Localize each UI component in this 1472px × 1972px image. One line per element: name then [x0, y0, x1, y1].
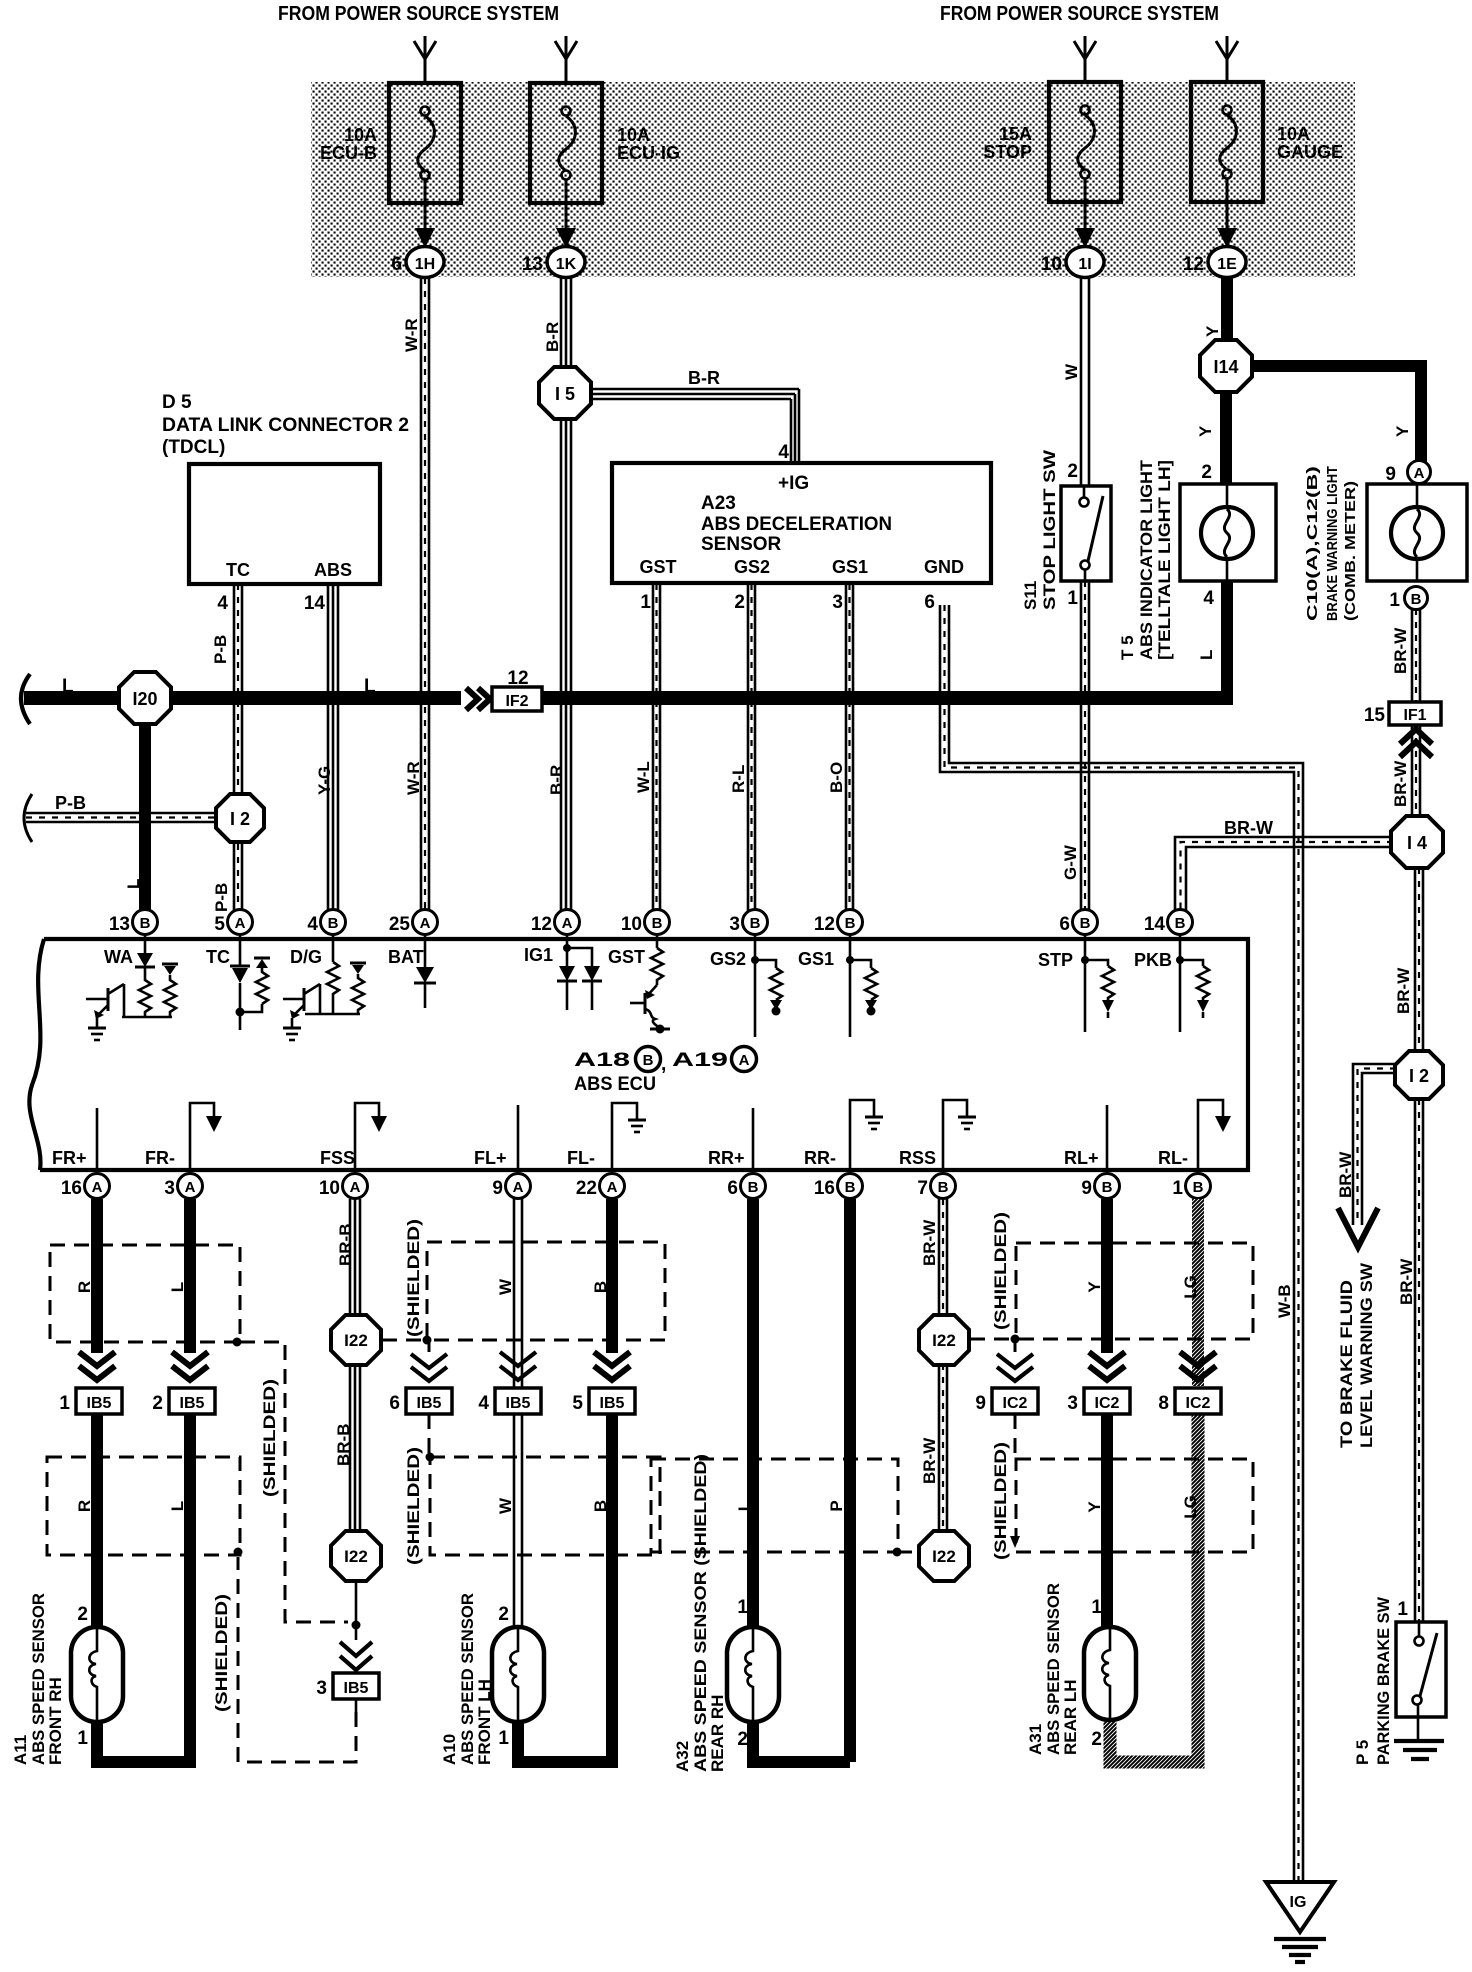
svg-text:I 2: I 2 — [1409, 1066, 1429, 1086]
svg-text:1: 1 — [737, 1597, 748, 1618]
wire Y thick I14 to brake warning light 9A — [1250, 366, 1421, 462]
svg-text:(COMB. METER): (COMB. METER) — [1342, 481, 1359, 621]
svg-text:1I: 1I — [1078, 256, 1091, 273]
ECU internal FR+ lead — [96, 1108, 99, 1170]
svg-text:STOP LIGHT SW: STOP LIGHT SW — [1040, 449, 1059, 610]
svg-text:RSS: RSS — [899, 1148, 936, 1168]
wire FL- B — [606, 1199, 618, 1353]
ECU top pin 3 B — [729, 910, 767, 936]
svg-text:GST: GST — [608, 947, 645, 967]
svg-text:9: 9 — [1385, 464, 1396, 485]
svg-text:A32: A32 — [673, 1741, 692, 1772]
junction I4 — [1391, 816, 1443, 868]
svg-text:6: 6 — [389, 1393, 400, 1414]
connector 1 IB5 — [59, 1388, 122, 1414]
stop light switch S11 — [1061, 486, 1111, 581]
svg-text:FR-: FR- — [145, 1148, 175, 1168]
ECU internal IG1 diodes — [557, 935, 602, 1010]
svg-text:B: B — [652, 915, 663, 932]
parking brake switch P5 — [1396, 1622, 1446, 1717]
P-B break mark left — [24, 794, 32, 842]
connector IF1 pin 15 — [1364, 702, 1441, 726]
svg-text:RR+: RR+ — [708, 1148, 745, 1168]
wire P-B from DLC TC through I2 to ECU pin 5A — [234, 584, 242, 912]
svg-text:B: B — [591, 1281, 610, 1293]
wire RR+ L to sensor A32 — [747, 1199, 759, 1630]
feed arrow to fuse ECU-IG — [555, 36, 577, 84]
shield drain to 3 IB5 — [340, 1580, 372, 1712]
connector 2 IB5 — [152, 1388, 215, 1414]
svg-text:10A: 10A — [344, 125, 377, 145]
svg-text:REAR LH: REAR LH — [1061, 1679, 1080, 1755]
ECU top pin 12 B — [814, 910, 863, 936]
junction I14 — [1200, 340, 1252, 392]
ECU bottom pin 22 A — [576, 1174, 625, 1200]
svg-text:1: 1 — [498, 1728, 509, 1749]
arrow into 3 IC2 — [1089, 1352, 1125, 1380]
svg-text:STP: STP — [1038, 950, 1073, 970]
svg-text:C10(A),C12(B): C10(A),C12(B) — [1304, 466, 1321, 621]
junction I5 — [539, 367, 591, 419]
svg-text:4: 4 — [1203, 588, 1214, 609]
svg-text:6: 6 — [391, 254, 402, 275]
svg-text:4: 4 — [217, 593, 228, 614]
main bus wire L right segment to telltale wire — [543, 691, 1233, 705]
svg-text:B-R: B-R — [547, 765, 566, 795]
svg-text:GST: GST — [639, 557, 676, 577]
svg-text:Y: Y — [1393, 425, 1412, 437]
svg-text:4: 4 — [478, 1393, 489, 1414]
svg-text:IF2: IF2 — [505, 693, 528, 710]
svg-text:PARKING BRAKE SW: PARKING BRAKE SW — [1374, 1596, 1393, 1765]
svg-text:IF1: IF1 — [1403, 707, 1426, 724]
junction I20 on bus — [119, 672, 171, 724]
connector 3 IC2 — [1067, 1388, 1130, 1414]
dotted power band — [311, 82, 1355, 277]
svg-text:12: 12 — [814, 914, 835, 935]
svg-text:IB5: IB5 — [87, 1395, 112, 1412]
ECU internal PKB load — [1176, 935, 1209, 1032]
svg-text:(SHIELDED): (SHIELDED) — [212, 1594, 231, 1712]
feed arrow to fuse STOP — [1074, 36, 1096, 84]
ABS deceleration sensor A23 box — [612, 463, 991, 583]
arrow into 9 IC2 shield — [997, 1354, 1033, 1381]
svg-text:REAR RH: REAR RH — [708, 1695, 727, 1772]
svg-text:A: A — [92, 1179, 103, 1196]
svg-text:BRAKE WARNING LIGHT: BRAKE WARNING LIGHT — [1324, 466, 1341, 621]
ECU internal RR+ lead — [752, 1108, 755, 1170]
svg-text:PKB: PKB — [1134, 950, 1172, 970]
feed arrow to fuse ECU-B — [414, 36, 436, 84]
ECU top pin 4 B — [307, 910, 345, 936]
ECU internal FL+ lead — [517, 1105, 520, 1170]
svg-text:5: 5 — [214, 914, 225, 935]
svg-text:W-R: W-R — [402, 318, 421, 352]
svg-text:2: 2 — [1201, 462, 1212, 483]
svg-text:[TELLTALE LIGHT LH]: [TELLTALE LIGHT LH] — [1155, 460, 1174, 660]
svg-text:BR-W: BR-W — [1224, 818, 1273, 838]
svg-text:A: A — [420, 915, 431, 932]
svg-text:(SHIELDED): (SHIELDED) — [404, 1447, 423, 1565]
svg-text:1K: 1K — [556, 256, 577, 273]
ECU internal GS1 load — [846, 935, 877, 1037]
svg-text:BR-W: BR-W — [1397, 1258, 1416, 1305]
fuse 10A ECU-B — [389, 83, 461, 228]
svg-text:Y: Y — [1085, 1501, 1104, 1513]
ground IG — [1266, 1882, 1334, 1962]
svg-text:BR-W: BR-W — [1336, 1151, 1355, 1198]
svg-text:T 5: T 5 — [1118, 635, 1137, 660]
svg-text:13: 13 — [109, 914, 130, 935]
svg-text:22: 22 — [576, 1178, 597, 1199]
fuse 10A ECU-IG — [530, 83, 602, 228]
ECU bottom pin 3 A — [164, 1174, 202, 1200]
svg-text:I14: I14 — [1213, 357, 1238, 377]
wire RL+ Y to sensor A31 — [1101, 1199, 1113, 1353]
ECU internal FSS hook arrow — [355, 1103, 387, 1170]
svg-text:1: 1 — [77, 1728, 88, 1749]
svg-text:1: 1 — [59, 1393, 70, 1414]
svg-text:4: 4 — [307, 914, 318, 935]
svg-text:Y: Y — [1085, 1281, 1104, 1293]
svg-text:P 5: P 5 — [1353, 1740, 1372, 1765]
wire W-R from 1H to ECU pin 25A — [421, 278, 429, 912]
svg-text:(TDCL): (TDCL) — [162, 437, 225, 458]
shield dashed box RR — [651, 1459, 898, 1552]
svg-text:3: 3 — [316, 1678, 327, 1699]
pin 9 circle A of brake warning light — [1408, 461, 1431, 484]
svg-text:BR-B: BR-B — [334, 1424, 353, 1467]
arrow into 2 IB5 — [172, 1352, 208, 1380]
ECU top pin 5 A — [214, 910, 252, 936]
svg-text:14: 14 — [304, 593, 326, 614]
svg-text:6: 6 — [924, 592, 935, 613]
ECU bottom pin 10 A — [319, 1174, 368, 1200]
svg-text:IG: IG — [1290, 1894, 1307, 1911]
svg-text:7: 7 — [917, 1178, 928, 1199]
shield drain FL group — [382, 1336, 435, 1462]
wire BR-W I2 down to parking brake switch — [1415, 1099, 1423, 1622]
svg-text:(SHIELDED): (SHIELDED) — [404, 1219, 423, 1337]
svg-text:1: 1 — [640, 592, 651, 613]
svg-text:BR-W: BR-W — [920, 1219, 939, 1266]
connector oval 1H pin 6 — [391, 247, 444, 278]
svg-text:W-B: W-B — [1275, 1284, 1294, 1318]
wire P-B horizontal to I2 — [26, 813, 218, 822]
svg-text:10A: 10A — [1277, 124, 1310, 144]
svg-text:2: 2 — [1067, 461, 1078, 482]
ECU bottom pin 7 B — [917, 1174, 955, 1200]
svg-text:TC: TC — [206, 947, 230, 967]
svg-text:B: B — [1080, 915, 1091, 932]
svg-text:B: B — [845, 915, 856, 932]
wire branch to brake fluid level warning switch arrow — [1338, 1064, 1396, 1247]
svg-text:L: L — [124, 879, 143, 889]
svg-text:,: , — [661, 1054, 666, 1075]
svg-text:R: R — [75, 1500, 94, 1512]
wire BR-W IF1 to I4 with up arrows — [1400, 725, 1432, 818]
svg-text:GS1: GS1 — [832, 557, 868, 577]
svg-text:W: W — [496, 1497, 515, 1514]
svg-text:IB5: IB5 — [180, 1395, 205, 1412]
svg-text:ABS DECELERATION: ABS DECELERATION — [701, 514, 892, 535]
DLC2 connector D5 box — [189, 464, 380, 584]
svg-text:IC2: IC2 — [1003, 1395, 1028, 1412]
svg-text:B: B — [748, 1179, 759, 1196]
svg-text:13: 13 — [522, 254, 543, 275]
ECU bottom pin 6 B — [727, 1174, 765, 1200]
svg-text:IC2: IC2 — [1186, 1395, 1211, 1412]
ECU internal RSS hook ground — [943, 1100, 976, 1170]
svg-text:D/G: D/G — [290, 947, 322, 967]
svg-text:B: B — [328, 915, 339, 932]
svg-text:2: 2 — [77, 1604, 88, 1625]
svg-text:B: B — [1102, 1179, 1113, 1196]
svg-text:B: B — [140, 915, 151, 932]
svg-text:DATA LINK CONNECTOR 2: DATA LINK CONNECTOR 2 — [162, 415, 409, 436]
junction I22 rear upper — [919, 1315, 969, 1365]
wire BR-B between I22 octagons — [350, 1364, 360, 1532]
svg-text:IB5: IB5 — [506, 1395, 531, 1412]
wire W-L from A23 GST to ECU pin 10B — [653, 584, 660, 912]
wire BR-W I4 down to I2 — [1415, 868, 1423, 1051]
svg-text:B: B — [1411, 591, 1422, 608]
svg-text:GS2: GS2 — [734, 557, 770, 577]
svg-text:2: 2 — [1091, 1729, 1102, 1750]
shield dashed box FL lower — [430, 1457, 660, 1555]
svg-text:4: 4 — [778, 442, 789, 463]
svg-text:FSS: FSS — [320, 1148, 355, 1168]
svg-text:6: 6 — [727, 1178, 738, 1199]
ECU top pin 25 A — [389, 910, 438, 936]
shield dashed box RL upper — [1016, 1243, 1253, 1339]
ECU bottom pin 16 A — [61, 1174, 110, 1200]
wire FL+ W to sensor A10 — [514, 1199, 522, 1630]
ECU internal BAT diode — [414, 935, 436, 1008]
svg-text:9: 9 — [492, 1178, 503, 1199]
fuse 15A STOP — [1049, 82, 1121, 228]
wire RL- LG hatched — [1110, 1199, 1198, 1762]
svg-text:IC2: IC2 — [1095, 1395, 1120, 1412]
circled B of A18 — [636, 1047, 661, 1072]
svg-text:LG: LG — [1181, 1495, 1200, 1519]
svg-text:SENSOR: SENSOR — [701, 534, 782, 555]
svg-text:B: B — [1193, 1179, 1204, 1196]
feed arrow to fuse GAUGE — [1216, 36, 1238, 84]
wire B-O from A23 GS1 to ECU pin 12B — [846, 584, 853, 912]
ECU internal FL- hook ground — [612, 1103, 646, 1170]
svg-text:GS2: GS2 — [710, 949, 746, 969]
ECU top pin 6 B — [1059, 910, 1097, 936]
svg-text:3: 3 — [164, 1178, 175, 1199]
svg-text:3: 3 — [832, 592, 843, 613]
svg-text:12: 12 — [507, 668, 528, 689]
svg-text:2: 2 — [734, 592, 745, 613]
ECU internal GS2 load — [751, 935, 782, 1037]
svg-text:RR-: RR- — [804, 1148, 836, 1168]
svg-text:14: 14 — [1144, 914, 1166, 935]
svg-text:I22: I22 — [344, 1547, 368, 1566]
arrow into 4 IB5 — [500, 1352, 536, 1380]
svg-text:BR-B: BR-B — [336, 1224, 355, 1267]
svg-text:R-L: R-L — [729, 765, 748, 793]
ECU bottom pin 9 B — [1081, 1174, 1119, 1200]
svg-text:9: 9 — [975, 1393, 986, 1414]
wire L thick from I20 to ECU pin 13B — [139, 723, 151, 912]
svg-text:3: 3 — [1067, 1393, 1078, 1414]
ECU internal WA circuit — [86, 935, 178, 1040]
svg-text:GAUGE: GAUGE — [1277, 142, 1343, 162]
svg-text:L: L — [62, 676, 74, 697]
connector 6 IB5 — [389, 1388, 452, 1414]
wire Y thick I14 down to telltale light pin 2 — [1220, 388, 1232, 485]
svg-text:P-B: P-B — [212, 883, 231, 912]
svg-text:WA: WA — [104, 947, 133, 967]
ECU top pin 14 B — [1144, 910, 1193, 936]
speed sensor A31 rear LH — [1084, 1627, 1136, 1720]
ECU top pin 13 B — [109, 910, 158, 936]
svg-text:R: R — [75, 1281, 94, 1293]
junction I22 front lower — [331, 1531, 381, 1581]
svg-text:I22: I22 — [932, 1547, 956, 1566]
svg-text:P-B: P-B — [55, 793, 86, 813]
svg-text:1: 1 — [1091, 1597, 1102, 1618]
svg-text:TC: TC — [226, 560, 250, 580]
svg-text:LEVEL WARNING SW: LEVEL WARNING SW — [1357, 1262, 1376, 1448]
svg-text:RL-: RL- — [1158, 1148, 1188, 1168]
wire FR+ R to sensor A11 — [91, 1199, 103, 1353]
shield dashed box RL lower — [1016, 1459, 1253, 1552]
svg-text:IB5: IB5 — [600, 1395, 625, 1412]
svg-text:I22: I22 — [344, 1331, 368, 1350]
svg-text:GS1: GS1 — [798, 949, 834, 969]
svg-text:P: P — [827, 1500, 846, 1511]
svg-text:Y-G: Y-G — [315, 766, 334, 795]
svg-text:FROM POWER SOURCE SYSTEM: FROM POWER SOURCE SYSTEM — [278, 3, 559, 25]
svg-text:IB5: IB5 — [344, 1680, 369, 1697]
ECU bottom pin 1 B — [1172, 1174, 1210, 1200]
svg-text:12: 12 — [1183, 254, 1204, 275]
svg-text:1E: 1E — [1217, 256, 1237, 273]
wire B-R from I5 to A23 +IG pin 4 — [590, 389, 799, 462]
connector 3 IB5 — [316, 1673, 379, 1699]
svg-text:TO BRAKE FLUID: TO BRAKE FLUID — [1337, 1280, 1356, 1448]
svg-text:I 2: I 2 — [230, 809, 250, 829]
wire BR-W brake warning to IF1 — [1412, 609, 1420, 703]
shield drain RL group — [970, 1335, 1020, 1549]
svg-text:W: W — [496, 1278, 515, 1295]
svg-text:B-O: B-O — [827, 762, 846, 793]
ECU internal D/G circuit — [283, 935, 366, 1040]
svg-text:FROM POWER SOURCE SYSTEM: FROM POWER SOURCE SYSTEM — [940, 3, 1219, 25]
wire W-B from A23 GND to IG ground — [940, 605, 1303, 1884]
svg-text:A: A — [1414, 465, 1425, 482]
ECU internal RL+ lead — [1106, 1105, 1109, 1170]
ABS ECU box — [29, 939, 1248, 1170]
wire Y thick from 1E to I14 — [1221, 278, 1233, 345]
arrow into 1 IB5 — [79, 1352, 115, 1380]
svg-text:10: 10 — [621, 914, 642, 935]
svg-text:GND: GND — [924, 557, 964, 577]
svg-text:FRONT LH: FRONT LH — [475, 1679, 494, 1765]
svg-text:2: 2 — [152, 1393, 163, 1414]
svg-text:L: L — [364, 676, 376, 697]
connector 9 IC2 — [975, 1388, 1038, 1414]
svg-text:Y: Y — [1196, 425, 1215, 437]
svg-text:W: W — [1062, 363, 1081, 380]
arrowhead into connector 1H — [415, 228, 435, 248]
wire B-R from 1K through I5 to ECU pin 12A — [561, 278, 571, 912]
svg-text:W-R: W-R — [404, 761, 423, 795]
connector 4 IB5 — [478, 1388, 541, 1414]
svg-text:IB5: IB5 — [417, 1395, 442, 1412]
wire R-L from A23 GS2 to ECU pin 3B — [748, 584, 755, 912]
svg-text:B: B — [845, 1179, 856, 1196]
svg-text:16: 16 — [61, 1178, 82, 1199]
svg-text:RL+: RL+ — [1064, 1148, 1099, 1168]
telltale lamp T5 ABS indicator light — [1180, 484, 1276, 581]
svg-text:B: B — [591, 1500, 610, 1512]
svg-text:B: B — [643, 1052, 654, 1069]
fuse 10A GAUGE — [1191, 82, 1263, 228]
svg-text:A: A — [350, 1179, 361, 1196]
svg-text:BR-W: BR-W — [1391, 760, 1410, 807]
svg-text:ABS: ABS — [314, 560, 352, 580]
svg-text:L: L — [1197, 650, 1216, 660]
svg-text:A: A — [235, 915, 246, 932]
arrow into 5 IB5 — [594, 1352, 630, 1380]
connector 8 IC2 — [1158, 1388, 1221, 1414]
svg-text:25: 25 — [389, 914, 411, 935]
svg-text:IG1: IG1 — [524, 945, 553, 965]
svg-text:8: 8 — [1158, 1393, 1169, 1414]
wire Y-G from DLC ABS to ECU pin 4B — [328, 584, 338, 912]
ECU internal RL- hook arrow — [1198, 1100, 1231, 1170]
pin 1 circle B of brake warning light — [1389, 587, 1427, 612]
junction I2 right — [1395, 1051, 1443, 1099]
svg-text:5: 5 — [572, 1393, 583, 1414]
circled A of A19 — [732, 1047, 757, 1072]
arrowhead into connector 1I — [1075, 228, 1095, 248]
shield drain RR to I22 — [893, 1548, 921, 1557]
svg-text:Y: Y — [1203, 325, 1222, 337]
svg-text:FR+: FR+ — [52, 1148, 87, 1168]
svg-text:15: 15 — [1364, 705, 1386, 726]
svg-text:A23: A23 — [701, 493, 736, 514]
bus break mark left — [21, 674, 30, 724]
svg-text:FRONT RH: FRONT RH — [46, 1677, 65, 1765]
svg-text:A31: A31 — [1026, 1724, 1045, 1755]
svg-text:1: 1 — [1067, 588, 1078, 609]
svg-text:BAT: BAT — [388, 947, 424, 967]
svg-text:A18: A18 — [574, 1050, 630, 1071]
svg-text:I 4: I 4 — [1407, 833, 1427, 853]
ECU internal RR- hook ground — [850, 1100, 883, 1170]
svg-text:P-B: P-B — [211, 635, 230, 664]
ECU top pin 10 B — [621, 910, 670, 936]
svg-text:(SHIELDED): (SHIELDED) — [260, 1379, 279, 1497]
svg-text:L: L — [735, 1501, 754, 1511]
svg-text:S11: S11 — [1021, 581, 1040, 610]
arrow into 6 IB5 shield — [411, 1354, 447, 1381]
speed sensor A11 front RH — [71, 1627, 123, 1722]
svg-text:L: L — [168, 1282, 187, 1292]
wire BR-W from I4 elbow to ECU PKB pin 14B — [1175, 837, 1393, 912]
svg-text:+IG: +IG — [778, 473, 809, 494]
junction I2 left — [216, 794, 264, 842]
svg-text:2: 2 — [737, 1729, 748, 1750]
wire L thick from T5 pin 4 to main bus — [1221, 581, 1233, 700]
